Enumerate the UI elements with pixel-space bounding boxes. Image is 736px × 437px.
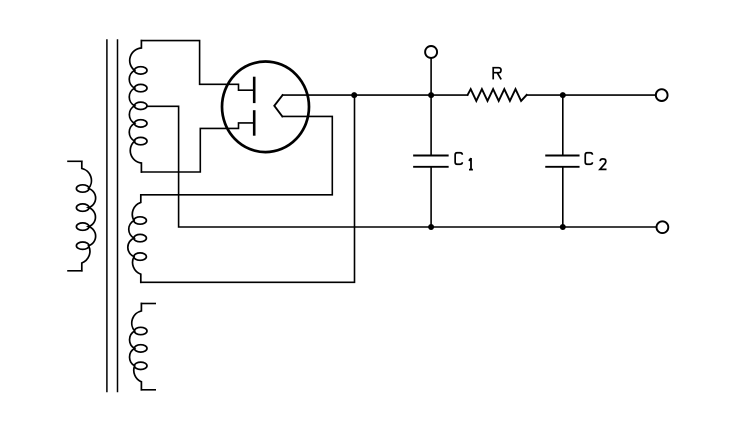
label C1 bbox=[455, 153, 462, 165]
tube bottom plate (anode) bbox=[253, 112, 256, 135]
wire C2 top lead bbox=[562, 95, 564, 155]
wire B+ rail left section bbox=[283, 94, 468, 96]
wire C2 bottom lead bbox=[562, 168, 564, 227]
capacitor C1 plates bbox=[414, 156, 448, 167]
wire primary top lead bbox=[68, 160, 82, 162]
wire top terminal stem bbox=[430, 58, 432, 95]
junction node at tube output bbox=[351, 92, 357, 98]
label C2 bbox=[585, 153, 592, 165]
output filament winding L4 bbox=[130, 304, 147, 390]
input terminal top bbox=[425, 46, 437, 58]
wire C1 top lead bbox=[430, 95, 432, 155]
tube filament (cathode) bbox=[274, 95, 282, 116]
wire L3 bottom lead to B+ node bbox=[141, 95, 355, 282]
wire L4 top stub bbox=[141, 303, 155, 305]
transformer core laminations bbox=[107, 40, 118, 392]
junction node C2 bottom bbox=[560, 224, 566, 230]
wire primary bottom lead bbox=[68, 270, 82, 272]
output terminal plus bbox=[656, 89, 668, 101]
label R bbox=[493, 68, 501, 80]
capacitor C2 plates bbox=[546, 156, 578, 167]
HV secondary winding L2 bbox=[129, 41, 147, 172]
resistor R bbox=[468, 89, 527, 101]
wire L4 bottom stub bbox=[141, 389, 155, 391]
wire C1 bottom lead bbox=[430, 168, 432, 227]
tube top plate (anode) bbox=[253, 78, 256, 102]
vacuum tube V1 envelope bbox=[222, 62, 309, 153]
junction node C1 bottom bbox=[428, 224, 434, 230]
junction node C2 top bbox=[560, 92, 566, 98]
wire L2 top end to top plate bbox=[141, 41, 253, 91]
output terminal minus bbox=[657, 221, 669, 233]
wire B+ rail right section bbox=[527, 94, 656, 96]
wire L2 bottom end to bottom plate bbox=[141, 123, 253, 172]
primary winding L1 bbox=[76, 161, 95, 270]
wire filament bottom to L3 top lead bbox=[141, 116, 332, 194]
rectifier filament winding L3 bbox=[128, 195, 147, 282]
junction node C1 top bbox=[428, 92, 434, 98]
wire HV center tap to ground rail bbox=[147, 106, 656, 227]
